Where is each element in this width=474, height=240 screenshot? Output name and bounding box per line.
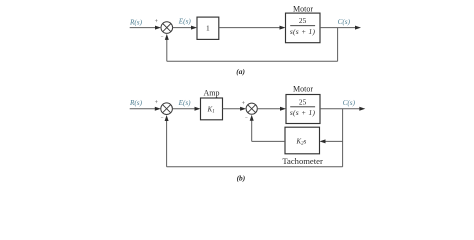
svg-text:R(s): R(s)	[129, 18, 143, 26]
svg-text:E(s): E(s)	[178, 99, 192, 107]
wire motor output to C(s) arrow (a)	[320, 26, 361, 30]
wire tachometer input branch (b)	[320, 139, 343, 143]
wire feedback tap down from output (a)	[337, 28, 339, 62]
svg-text:(b): (b)	[237, 174, 246, 183]
gain block "1" (a)	[197, 17, 219, 39]
motor transfer-function block 25/s(s+1) (b)	[286, 95, 320, 124]
wire input R(s) to summing junction (b)	[130, 107, 161, 111]
wire summing junction to amp box (b)	[172, 107, 200, 111]
summing junction S2 (b)	[246, 103, 257, 114]
wire gain box to motor box (a)	[219, 26, 286, 30]
svg-text:Motor: Motor	[293, 4, 313, 13]
svg-text:−: −	[161, 36, 164, 41]
wire summing junction to gain box (a)	[173, 26, 197, 30]
svg-text:C(s): C(s)	[343, 99, 356, 107]
wire amp box to second summing junction (b)	[223, 107, 247, 111]
svg-text:Motor: Motor	[293, 85, 313, 94]
svg-text:25: 25	[299, 16, 307, 25]
svg-text:1: 1	[206, 24, 210, 33]
wire input R(s) to summing junction (a)	[130, 26, 161, 30]
svg-text:Amp: Amp	[204, 89, 220, 98]
wire second summing junction to motor box (b)	[257, 107, 286, 111]
wire tachometer output run left (b)	[252, 140, 285, 142]
svg-text:s(s + 1): s(s + 1)	[290, 108, 316, 117]
wire feedback bottom run (a)	[167, 60, 338, 62]
wire feedback tap down from output (b)	[342, 109, 344, 167]
wire tachometer output up into second summing junction (b)	[250, 115, 254, 142]
svg-text:R(s): R(s)	[129, 99, 143, 107]
svg-text:C(s): C(s)	[338, 18, 351, 26]
summing junction S1 (b)	[161, 103, 173, 115]
svg-text:K2s: K2s	[296, 138, 307, 146]
wire motor output to C(s) arrow (b)	[320, 107, 365, 111]
svg-text:s(s + 1): s(s + 1)	[290, 27, 316, 36]
amplifier block K1 (b)	[201, 98, 223, 120]
tachometer block K2s (b)	[285, 127, 320, 154]
summing junction S1 (a)	[161, 22, 173, 34]
wire outer feedback bottom run (b)	[167, 166, 343, 168]
motor transfer-function block 25/s(s+1) (a)	[286, 13, 321, 43]
svg-text:25: 25	[299, 97, 307, 106]
svg-text:−: −	[161, 117, 164, 122]
svg-text:Tachometer: Tachometer	[282, 156, 323, 166]
svg-text:(a): (a)	[236, 67, 245, 76]
wire outer feedback up into first summing junction (b)	[165, 115, 169, 167]
wire feedback up into summing junction (a)	[165, 34, 169, 61]
svg-text:−: −	[245, 116, 248, 121]
svg-text:E(s): E(s)	[178, 18, 192, 26]
